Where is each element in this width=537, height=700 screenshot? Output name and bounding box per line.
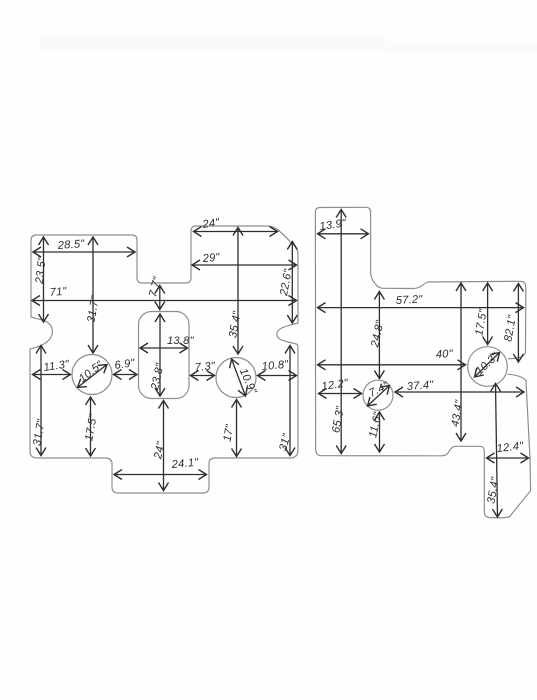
svg-text:12.2": 12.2": [321, 377, 350, 393]
svg-text:13.9": 13.9": [319, 217, 348, 233]
svg-text:28.5": 28.5": [56, 238, 85, 252]
dim 71: [32, 300, 297, 302]
dim 10.9 diagonal: [232, 359, 246, 396]
svg-text:35.4": 35.4": [485, 475, 502, 504]
svg-text:24": 24": [152, 440, 168, 461]
dim 28.5: [33, 251, 135, 253]
svg-text:6.9": 6.9": [114, 357, 137, 372]
right template outline lower part: [315, 208, 530, 518]
right template outline upper part: [320, 207, 526, 358]
dim 65.3: [340, 210, 342, 454]
dim 13.9: [318, 233, 369, 235]
dim 31: [289, 346, 291, 456]
dim 7.7: [159, 286, 161, 310]
svg-text:82.1": 82.1": [502, 313, 519, 342]
svg-text:10.8": 10.8": [261, 359, 290, 373]
dim 17: [236, 400, 238, 457]
svg-text:24.1": 24.1": [170, 457, 200, 471]
svg-text:23.8": 23.8": [149, 362, 167, 392]
dim 12.2: [319, 393, 362, 395]
svg-text:65.3": 65.3": [330, 405, 347, 434]
svg-text:10.5": 10.5": [77, 359, 106, 385]
svg-text:17.5": 17.5": [83, 413, 100, 442]
svg-text:17": 17": [222, 423, 237, 443]
circle cutout 10.3in on right edge: [468, 347, 508, 387]
svg-text:37.4": 37.4": [406, 379, 434, 393]
svg-text:31.7": 31.7": [85, 294, 102, 323]
dim 35.4: [237, 228, 239, 355]
svg-text:43.4": 43.4": [449, 398, 466, 427]
circle cutout 7.4in: [363, 380, 393, 410]
dim 24 vertical: [163, 401, 165, 491]
dim 10.8: [258, 375, 297, 377]
dim 82.1: [517, 284, 519, 363]
svg-text:57.2": 57.2": [396, 294, 424, 307]
dim 11.3: [33, 374, 71, 376]
dim 40: [318, 364, 466, 366]
dim 23.8: [159, 314, 161, 396]
faint scanner band top: [40, 36, 385, 50]
dim 57.2: [318, 307, 524, 309]
dim 31.7 lower left: [40, 346, 42, 456]
dim 22.6: [291, 242, 293, 324]
dim 17.5 right: [487, 283, 489, 345]
dim 10.3 diagonal: [475, 353, 500, 378]
svg-text:35.4": 35.4": [227, 310, 244, 339]
dim 43.4: [460, 283, 462, 441]
svg-text:71": 71": [49, 285, 68, 299]
dim 13.8: [140, 347, 188, 349]
dim 24 top: [194, 231, 278, 233]
dim 24.1: [114, 474, 207, 476]
circle cutout 10.9in: [216, 358, 256, 398]
svg-text:40": 40": [436, 348, 454, 361]
svg-text:7.3": 7.3": [194, 360, 216, 374]
dim 24.8: [378, 292, 380, 379]
svg-text:23.5": 23.5": [34, 255, 49, 285]
svg-text:29": 29": [201, 251, 221, 265]
dim 29: [192, 264, 297, 266]
dim 11.6: [379, 412, 381, 452]
left shape centre rounded-rect cutout: [139, 312, 190, 399]
svg-text:24.8": 24.8": [369, 319, 387, 349]
dim 7.3: [191, 375, 215, 377]
svg-text:24": 24": [201, 217, 221, 232]
svg-text:7.7": 7.7": [147, 275, 164, 299]
dim 17.5: [90, 397, 92, 456]
svg-text:13.8": 13.8": [167, 335, 195, 347]
dim 6.9: [114, 374, 138, 376]
dim 23.5: [43, 237, 45, 322]
dim 31.7 mid: [92, 237, 94, 353]
svg-text:11.3": 11.3": [43, 358, 71, 374]
dim 37.4: [395, 391, 524, 393]
svg-text:12.4": 12.4": [496, 440, 525, 455]
svg-text:11.6": 11.6": [367, 410, 384, 439]
svg-text:31": 31": [277, 432, 293, 452]
svg-text:31.7": 31.7": [31, 418, 48, 447]
dim 7.4 diagonal: [368, 386, 390, 407]
circle cutout 10.5in: [72, 355, 112, 395]
dim 12.4: [487, 457, 529, 459]
dim 35.4 right: [496, 384, 498, 518]
dim 10.5 diagonal: [78, 365, 108, 388]
left template outline: [30, 226, 298, 493]
